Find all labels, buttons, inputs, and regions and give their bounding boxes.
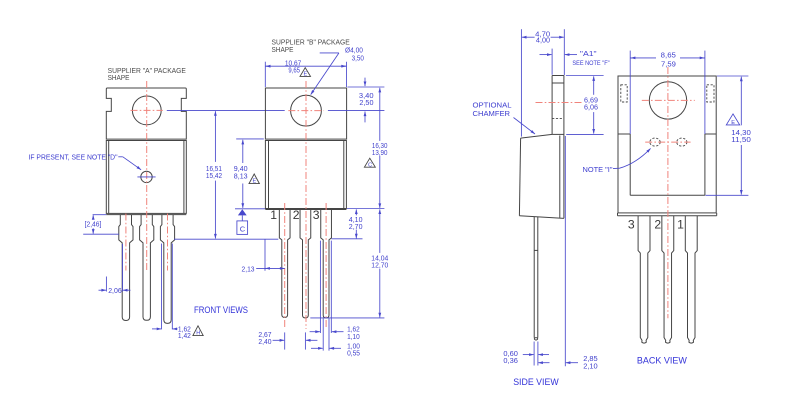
centerline: supplier B vertical (body + lead 2) [305,81,307,329]
svg-text:1,10: 1,10 [347,332,360,341]
back view lead 1 (right) [685,216,697,343]
dimple blue centerline [137,176,155,178]
svg-text:C: C [240,225,246,234]
note flag triangle E (10,67/9,65) [300,68,311,77]
dimension 9,40/8,13 with extension line [236,138,264,140]
svg-text:SIDE VIEW: SIDE VIEW [513,377,559,387]
side view tab notch tick (dashed hidden) [552,118,564,120]
side view lead profile [533,217,535,338]
supplier B tab outline [265,88,346,139]
datum C filled triangle [238,209,247,215]
note flag triangle E (9,40/8,13) [249,174,259,184]
svg-text:IF PRESENT, SEE NOTE "D": IF PRESENT, SEE NOTE "D" [29,152,118,161]
note flag triangle H (1,62/1,42) [193,326,203,336]
svg-text:[2,46]: [2,46] [85,220,102,229]
svg-text:2,70: 2,70 [349,222,363,231]
dimension 4,70/4,00 [520,29,522,136]
svg-text:H: H [196,331,200,337]
svg-text:SEE NOTE "F": SEE NOTE "F" [572,60,610,67]
centerline: supplier A hole horizontal (red) [131,109,163,111]
centerline: supplier A lead 1 [125,214,127,271]
dimension 2,67/2,40 (lead pitch) [284,332,286,349]
svg-text:1,42: 1,42 [178,331,191,340]
supplier A body bottom second line [106,214,186,216]
svg-text:3,50: 3,50 [352,54,364,63]
back view inner body edges [629,134,631,195]
centerline: back view vertical (red) [667,67,669,318]
dimension 1,00/0,55 (lead 3 pin width) [322,318,324,350]
centerline: supplier A vertical (body + lead 2) [146,81,148,272]
dimension 0,60/0,36 (lead thickness) [523,354,534,356]
note flag triangle E (14,30/11,50, blue) [726,114,739,125]
svg-text:11,50: 11,50 [731,135,751,144]
dimension 1,62/1,10 (lead 3 shoulder width) [319,241,321,333]
back view bottom ledge [618,215,717,217]
centerline: back view hole horizontal (red) [642,99,695,101]
svg-text:4,00: 4,00 [536,36,550,45]
back view hidden notch left (dashed) [621,85,627,102]
dimension 16,30/13,90 [379,88,381,141]
dimension 1,62/1,42 (lead 3) extension lines [161,244,163,330]
svg-text:2: 2 [293,208,300,222]
supplier A body outline [106,141,186,214]
dimension 8,65/7,59 [629,51,631,134]
svg-text:SHAPE: SHAPE [108,73,130,82]
svg-text:9,65: 9,65 [288,66,300,75]
dimension "A1" SEE NOTE "F" [551,49,553,75]
extension line: lead shoulder bottoms (long blue horizontal) [174,238,278,240]
side view body chamfer edge [521,134,553,138]
supplier A tab outline with side notches [106,88,186,139]
supplier A body inner mold lines [108,141,110,214]
svg-text:CHAMFER: CHAMFER [473,109,511,118]
centerline: supplier B lead 3 [325,203,327,328]
svg-text:2,10: 2,10 [583,361,598,370]
dimension 2,06 (lead width) [105,277,107,292]
svg-text:12,70: 12,70 [371,260,388,269]
dimension 2,13 [264,239,266,271]
supplier A mounting hole [132,96,161,125]
svg-text:2: 2 [654,218,661,232]
dimension 3,40/2,50 [364,78,366,87]
svg-text:1: 1 [270,208,277,222]
side view body front edge [519,138,520,216]
side view tab notch tick (solid) [552,82,564,84]
dimension 16,51/15,42 [214,111,216,162]
svg-text:1: 1 [677,218,684,232]
svg-text:NOTE "I": NOTE "I" [583,165,613,174]
centerline: side view hole height (red) [536,102,584,104]
dimension 10,67/9,65 [264,62,266,87]
supplier B lead 3 [321,210,332,318]
side view tab profile [552,75,564,77]
note I feature left (dashed oval) [650,138,660,146]
supplier B mounting hole [291,95,322,126]
back view mounting hole [649,82,686,119]
back view lead 2 (middle) [662,216,674,343]
extension line: shoulder bottom right segment (4,10 ext) [332,238,363,240]
datum C stub and box [241,215,243,221]
extension line: tab top to right [348,86,385,88]
centerline: supplier B lead 1 [284,203,286,328]
side view lead tip [534,338,538,340]
centerline: supplier B hole horizontal (red) [288,110,324,112]
extension lines: side pin edges below tip [533,342,535,366]
svg-text:0,36: 0,36 [503,356,518,365]
dimension 2,85/2,10 with back-face extension line [564,136,566,366]
svg-text:3: 3 [313,208,320,222]
svg-text:SHAPE: SHAPE [272,45,294,54]
supplier A lead 1 [119,215,133,321]
svg-text:E: E [731,120,735,126]
back view tab step lines [618,133,630,135]
svg-text:BACK VIEW: BACK VIEW [637,356,687,366]
centerline: note I features horizontal (red) [645,141,690,143]
note I feature right (dashed oval) [677,138,687,146]
svg-text:6,06: 6,06 [584,102,598,111]
centerline: supplier A lead 3 [167,214,169,271]
svg-text:8,65: 8,65 [661,51,676,60]
svg-text:E: E [253,179,257,185]
extension line: hole center to right dims [328,110,385,112]
supplier A lead 3 [160,215,174,324]
supplier B lead 1 [279,210,290,318]
back view lead 3 (left) [638,216,650,343]
svg-text:8,13: 8,13 [234,171,248,180]
svg-text:2,13: 2,13 [242,265,255,274]
back view outer outline [618,76,716,213]
side view body inner mold line [559,136,561,218]
dimension 6,69/6,06 [566,75,604,77]
svg-text:E: E [304,72,308,78]
supplier A dimple hole (note D) [141,171,152,182]
side view body bottom edge [519,216,564,219]
svg-text:15,42: 15,42 [206,171,222,180]
supplier A lead 2 [140,215,154,321]
back view hidden notch right (dashed) [707,85,714,102]
svg-text:"A1": "A1" [580,49,597,58]
svg-text:2,40: 2,40 [258,337,271,346]
dimension 14,04/12,70 [379,209,381,253]
svg-text:3: 3 [628,218,635,232]
svg-text:2,06: 2,06 [108,286,122,295]
dimension [2,46] [93,214,107,216]
svg-text:FRONT VIEWS: FRONT VIEWS [194,305,248,315]
supplier B lead 2 [300,210,311,318]
extension line: hole centers A to B (blue horizontal) [167,109,285,111]
datum seating plane line [235,208,266,210]
svg-text:7,59: 7,59 [661,59,676,68]
svg-text:C: C [368,162,372,168]
extension line: body bottom to right [347,208,384,210]
svg-text:13,90: 13,90 [372,148,388,157]
note flag triangle C (16,30/13,90) [364,158,375,167]
supplier B body outline [265,141,346,209]
supplier B body bottom second line [265,209,346,211]
svg-text:2,50: 2,50 [359,98,373,107]
dimension 14,30/11,50 [717,75,748,77]
supplier B body inner mold lines [268,141,270,209]
extension line: lead tips to right [310,317,384,319]
dimension 4,10/2,70 [355,209,357,215]
svg-text:0,55: 0,55 [347,348,360,357]
